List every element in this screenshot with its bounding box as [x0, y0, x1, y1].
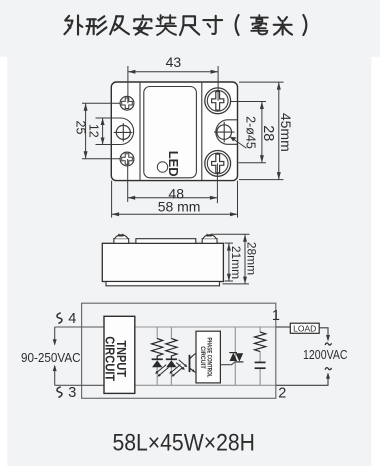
char 米 — [274, 17, 292, 34]
PHASE CONTROL CIRCUIT box — [196, 331, 220, 383]
svg-text:28: 28 — [260, 125, 276, 141]
wire bottom rail — [55, 384, 104, 386]
body — [102, 243, 223, 281]
resistor R1 branch wire — [156, 327, 158, 339]
leader 2-ø45 — [230, 137, 246, 148]
LED D1 — [152, 358, 163, 360]
AC source tilde bottom — [325, 368, 331, 370]
dim 43 line — [128, 71, 218, 73]
LED D2 emission arrows — [169, 365, 182, 377]
triac branch wire — [234, 327, 236, 385]
right middle mounting hole crosshair — [214, 122, 235, 142]
dim 12 line — [102, 118, 104, 145]
snubber branch wire — [259, 327, 261, 333]
char 形 — [86, 16, 106, 34]
base plate — [106, 282, 220, 286]
svg-text:CIRCUIT: CIRCUIT — [199, 346, 206, 369]
wire LOAD to source — [319, 328, 328, 340]
AC tilde terminal 3 — [57, 387, 62, 398]
svg-text:2-ø45: 2-ø45 — [243, 116, 257, 149]
char （ — [236, 15, 239, 35]
phototransistor Q1 light arrows — [176, 360, 187, 370]
dim 28 extension lines — [231, 101, 266, 103]
right terminal screw bottom — [205, 151, 231, 177]
svg-text:3: 3 — [68, 385, 76, 401]
left small screw bottom — [120, 152, 134, 166]
svg-text:45mm: 45mm — [278, 113, 294, 152]
phototransistor Q1 — [190, 354, 197, 372]
dim 28mm extension lines — [212, 233, 250, 235]
resistor R2 branch wire — [170, 327, 172, 339]
inner face rounded rect — [144, 87, 197, 178]
svg-text:58 mm: 58 mm — [158, 199, 201, 215]
svg-text:2: 2 — [278, 385, 286, 401]
snubber capacitor C1 — [255, 361, 266, 363]
dim 28mm line — [244, 234, 246, 284]
char 及 — [110, 16, 129, 34]
dim 58mm line — [112, 213, 238, 215]
svg-text:LOAD: LOAD — [293, 323, 316, 333]
char 安 — [134, 15, 152, 34]
dim 28 line — [261, 102, 263, 163]
svg-text:1: 1 — [272, 308, 280, 324]
wire source to terminal 2 — [276, 374, 328, 385]
title: 外形及安装尺寸（毫米） hand-drawn CJK strokes — [64, 15, 306, 35]
dim 45mm line — [278, 82, 280, 180]
svg-text:LED: LED — [166, 151, 181, 177]
snubber resistor R3 — [255, 332, 266, 352]
right terminal screw top — [205, 88, 231, 114]
white page margin right — [371, 57, 380, 466]
LED D2 — [166, 358, 177, 360]
dim 58mm extension lines — [111, 181, 113, 218]
relay body outline — [111, 82, 237, 181]
resistor R2 — [166, 339, 177, 360]
svg-text:1200VAC: 1200VAC — [303, 348, 348, 362]
enclosure box — [82, 303, 276, 398]
right notch around mounting hole — [216, 120, 237, 145]
resistor R1 — [152, 339, 163, 360]
svg-text:21mm: 21mm — [229, 246, 243, 279]
svg-text:58L×45W×28H: 58L×45W×28H — [112, 430, 255, 457]
left small screw top — [120, 96, 134, 110]
divider line right — [201, 83, 203, 180]
char 外 — [64, 15, 82, 34]
dim 25 extension lines — [82, 102, 120, 104]
svg-text:43: 43 — [166, 54, 182, 70]
right screw head bump — [202, 234, 217, 244]
svg-text:25: 25 — [73, 121, 87, 135]
wire left source vertical lower — [54, 366, 56, 385]
svg-text:28mm: 28mm — [245, 242, 259, 275]
svg-text:12: 12 — [87, 124, 101, 138]
divider line left — [139, 83, 141, 180]
AC source tilde top — [325, 343, 331, 345]
left screw head bump — [114, 234, 129, 244]
svg-text:CIRCUIT: CIRCUIT — [103, 336, 118, 381]
wire top rail — [55, 326, 104, 328]
left mounting slot (stadium) — [96, 118, 134, 145]
source arrows left — [53, 339, 57, 346]
wire terminal 1 to LOAD — [276, 326, 291, 328]
white page margin left — [0, 57, 7, 466]
dim 43 extension lines — [127, 66, 129, 103]
dim 21mm line — [228, 243, 230, 281]
dim 25 line — [85, 103, 87, 158]
LED indicator circle — [157, 162, 167, 172]
dim 48 line — [128, 197, 218, 199]
LED D1 emission arrows — [155, 365, 168, 377]
char 尺 — [180, 16, 199, 35]
char 寸 — [203, 16, 222, 34]
char 装 — [156, 15, 176, 35]
left middle mounting hole crosshair — [114, 123, 133, 142]
svg-text:90-250VAC: 90-250VAC — [21, 350, 81, 365]
LOAD box — [290, 323, 319, 333]
svg-text:4: 4 — [68, 311, 76, 327]
dim 45mm extension lines — [239, 81, 284, 83]
AC tilde terminal 4 — [57, 313, 62, 324]
char ） — [303, 15, 306, 35]
dim 21mm extension lines — [225, 242, 234, 244]
middle ridge — [136, 239, 196, 244]
triac gate wire — [220, 362, 235, 365]
char 毫 — [251, 15, 268, 34]
INPUT CIRCUIT box — [104, 316, 135, 393]
wire left source vertical upper — [54, 327, 56, 344]
dim 48 extension lines — [127, 159, 129, 202]
triac Q2 — [229, 352, 237, 354]
